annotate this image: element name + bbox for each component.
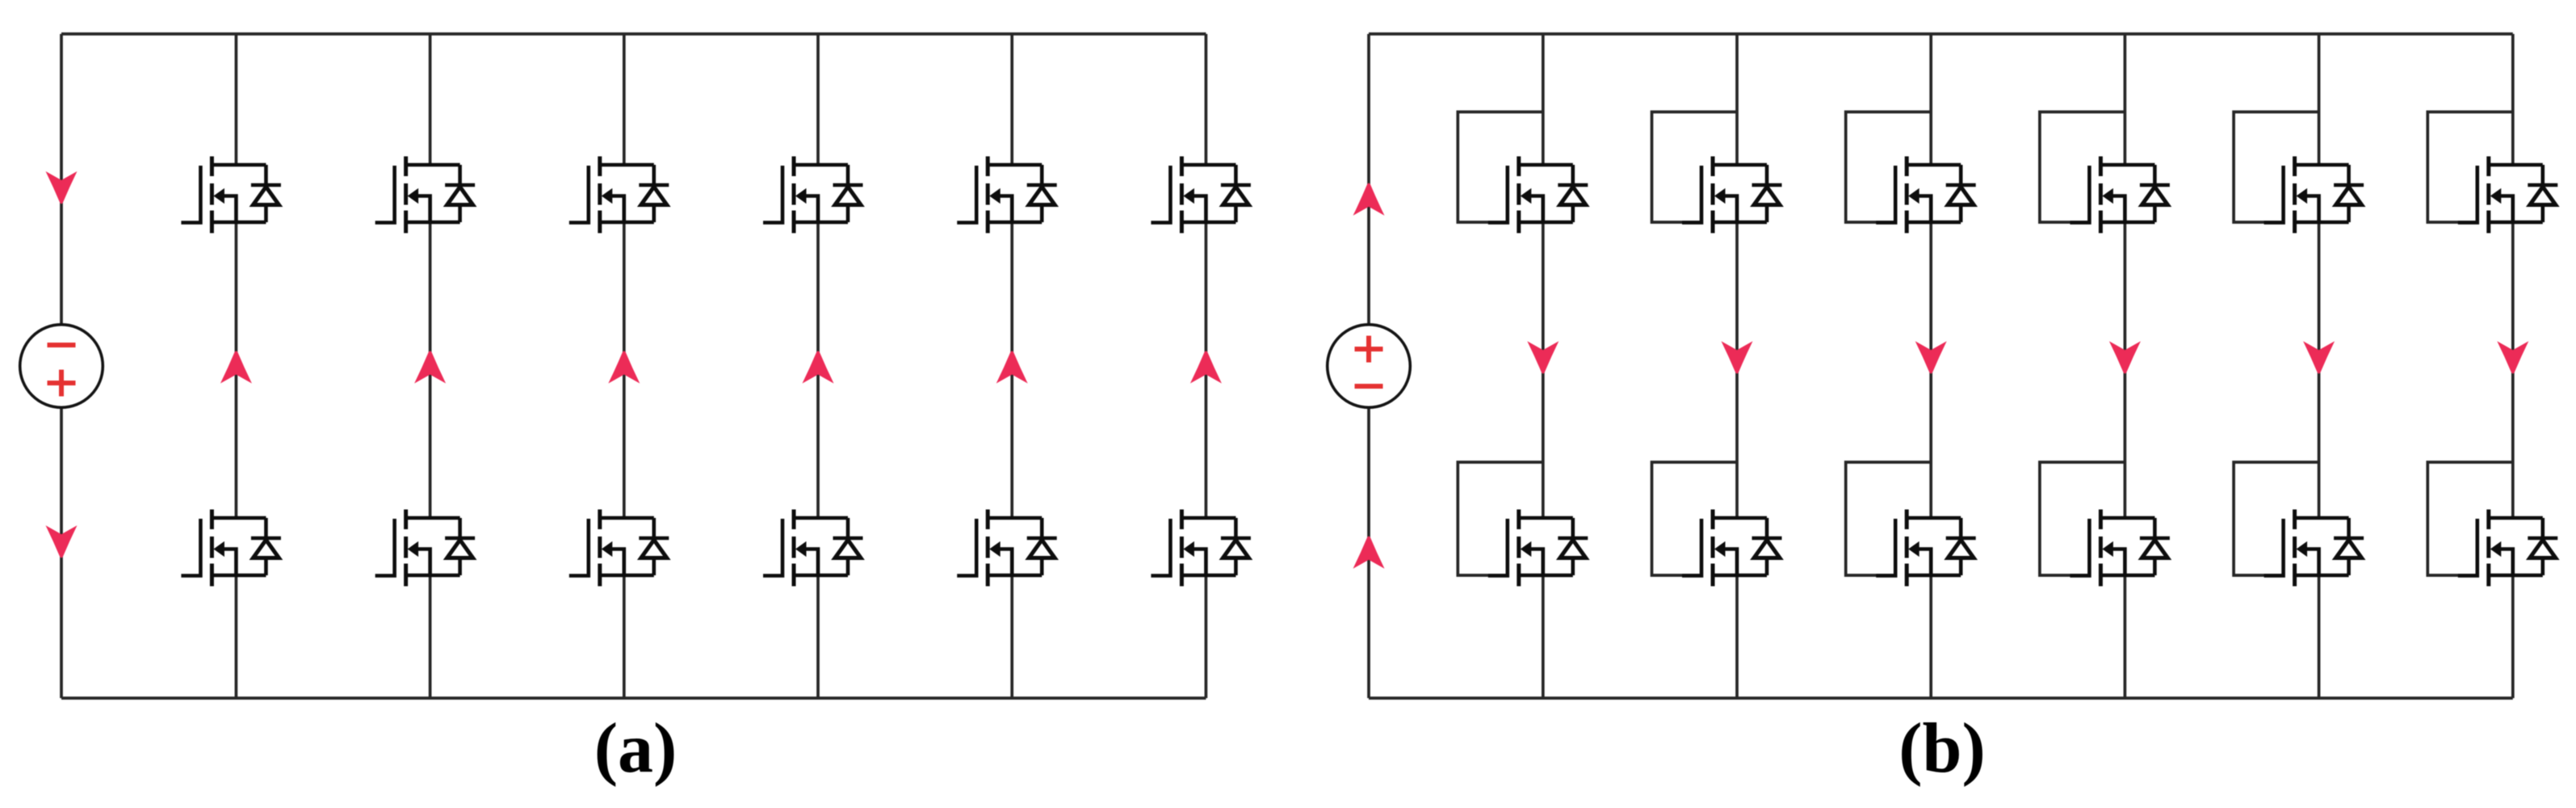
wire top rail (a)	[61, 32, 1206, 36]
wire left lower segment (b)	[1367, 407, 1370, 698]
gate-drain loop wire upper Q17 (b3)	[1846, 112, 1932, 223]
wire branch 5 middle segment (b)	[2318, 222, 2321, 518]
wire branch 4 source segment (a)	[816, 575, 820, 698]
gate-drain loop wire upper Q23 (b6)	[2427, 112, 2513, 223]
wire branch 6 middle segment (b)	[2511, 222, 2515, 518]
current arrow branch 1 (b) down	[1527, 341, 1559, 373]
current arrow branch 6 (b) down	[2497, 341, 2528, 373]
current arrow left upper (b) up	[1353, 183, 1385, 216]
current arrow branch 4 (a) up	[803, 351, 834, 383]
wire branch 2 drain segment (b)	[1735, 34, 1739, 165]
MOSFET Q9 with body diode (a branch 5 top)	[957, 157, 1057, 234]
current arrow branch 3 (a) up	[608, 351, 640, 383]
wire branch 1 middle segment (b)	[1542, 222, 1545, 518]
wire branch 6 source segment (b)	[2511, 575, 2515, 698]
wire branch 6 drain segment (b)	[2511, 34, 2515, 165]
MOSFET Q6 with body diode (a branch 3 bottom)	[569, 510, 669, 587]
wire branch 2 middle segment (a)	[429, 222, 432, 518]
gate-drain loop wire lower Q20 (b4)	[2040, 462, 2125, 575]
current arrow left lower (b) up	[1353, 536, 1385, 568]
MOSFET Q14 with body diode (b branch 1 bottom)	[1488, 510, 1588, 587]
wire branch 2 source segment (a)	[429, 575, 432, 698]
wire branch 1 middle segment (a)	[235, 222, 238, 518]
wire branch 4 source segment (b)	[2124, 575, 2127, 698]
wire branch 1 source segment (b)	[1542, 575, 1545, 698]
gate-drain loop wire upper Q19 (b4)	[2040, 112, 2125, 223]
current arrow branch 2 (a) up	[414, 351, 446, 383]
svg-text:(b): (b)	[1898, 709, 1986, 788]
MOSFET Q21 with body diode (b branch 5 top)	[2264, 157, 2364, 234]
current arrow left upper (a) down	[46, 171, 78, 204]
wire branch 6 middle segment (a)	[1205, 222, 1208, 518]
MOSFET Q19 with body diode (b branch 4 top)	[2070, 157, 2170, 234]
gate-drain loop wire lower Q16 (b2)	[1652, 462, 1738, 575]
current arrow branch 1 (a) up	[220, 351, 252, 383]
gate-drain loop wire upper Q15 (b2)	[1652, 112, 1738, 223]
MOSFET Q11 with body diode (a branch 6 top)	[1151, 157, 1251, 234]
MOSFET Q1 with body diode (a branch 1 top)	[181, 157, 281, 234]
wire left upper segment (b)	[1367, 34, 1370, 325]
wire left upper segment (a)	[60, 34, 63, 325]
wire branch 5 source segment (a)	[1010, 575, 1013, 698]
MOSFET Q4 with body diode (a branch 2 bottom)	[375, 510, 476, 587]
wire branch 5 source segment (b)	[2318, 575, 2321, 698]
MOSFET Q15 with body diode (b branch 2 top)	[1682, 157, 1782, 234]
MOSFET Q16 with body diode (b branch 2 bottom)	[1682, 510, 1782, 587]
MOSFET Q3 with body diode (a branch 2 top)	[375, 157, 476, 234]
MOSFET Q13 with body diode (b branch 1 top)	[1488, 157, 1588, 234]
gate-drain loop wire upper Q13 (b1)	[1458, 112, 1543, 223]
MOSFET Q18 with body diode (b branch 3 bottom)	[1876, 510, 1976, 587]
current arrow branch 4 (b) down	[2109, 341, 2141, 373]
MOSFET Q2 with body diode (a branch 1 bottom)	[181, 510, 281, 587]
wire branch 3 source segment (a)	[623, 575, 626, 698]
wire top rail (b)	[1369, 32, 2513, 36]
svg-text:(a): (a)	[594, 709, 678, 788]
wire branch 3 source segment (b)	[1929, 575, 1932, 698]
wire branch 6 drain segment (a)	[1205, 34, 1208, 165]
gate-drain loop wire lower Q22 (b5)	[2234, 462, 2319, 575]
wire branch 4 middle segment (a)	[816, 222, 820, 518]
MOSFET Q8 with body diode (a branch 4 bottom)	[763, 510, 863, 587]
gate-drain loop wire lower Q24 (b6)	[2427, 462, 2513, 575]
current arrow branch 5 (a) up	[996, 351, 1028, 383]
gate-drain loop wire lower Q18 (b3)	[1846, 462, 1932, 575]
wire branch 3 middle segment (a)	[623, 222, 626, 518]
current arrow branch 3 (b) down	[1915, 341, 1947, 373]
MOSFET Q7 with body diode (a branch 4 top)	[763, 157, 863, 234]
MOSFET Q10 with body diode (a branch 5 bottom)	[957, 510, 1057, 587]
wire branch 4 drain segment (a)	[816, 34, 820, 165]
wire branch 2 middle segment (b)	[1735, 222, 1739, 518]
MOSFET Q23 with body diode (b branch 6 top)	[2458, 157, 2558, 234]
wire branch 4 drain segment (b)	[2124, 34, 2127, 165]
wire branch 1 drain segment (b)	[1542, 34, 1545, 165]
gate-drain loop wire upper Q21 (b5)	[2234, 112, 2319, 223]
wire branch 2 source segment (b)	[1735, 575, 1739, 698]
wire branch 5 drain segment (b)	[2318, 34, 2321, 165]
current arrow branch 5 (b) down	[2303, 341, 2335, 373]
wire branch 3 middle segment (b)	[1929, 222, 1932, 518]
MOSFET Q22 with body diode (b branch 5 bottom)	[2264, 510, 2364, 587]
MOSFET Q24 with body diode (b branch 6 bottom)	[2458, 510, 2558, 587]
wire branch 6 source segment (a)	[1205, 575, 1208, 698]
MOSFET Q17 with body diode (b branch 3 top)	[1876, 157, 1976, 234]
MOSFET Q12 with body diode (a branch 6 bottom)	[1151, 510, 1251, 587]
wire bottom rail (a)	[61, 696, 1206, 700]
wire branch 5 drain segment (a)	[1010, 34, 1013, 165]
gate-drain loop wire lower Q14 (b1)	[1458, 462, 1543, 575]
wire branch 1 source segment (a)	[235, 575, 238, 698]
wire bottom rail (b)	[1369, 696, 2513, 700]
current arrow branch 6 (a) up	[1190, 351, 1222, 383]
wire branch 2 drain segment (a)	[429, 34, 432, 165]
MOSFET Q5 with body diode (a branch 3 top)	[569, 157, 669, 234]
MOSFET Q20 with body diode (b branch 4 bottom)	[2070, 510, 2170, 587]
wire left lower segment (a)	[60, 407, 63, 698]
wire branch 4 middle segment (b)	[2124, 222, 2127, 518]
wire branch 5 middle segment (a)	[1010, 222, 1013, 518]
voltage source V (a)	[20, 325, 103, 408]
voltage source V (b)	[1328, 325, 1411, 408]
wire branch 3 drain segment (b)	[1929, 34, 1932, 165]
current arrow left lower (a) down	[46, 525, 78, 558]
current arrow branch 2 (b) down	[1722, 341, 1753, 373]
wire branch 1 drain segment (a)	[235, 34, 238, 165]
wire branch 3 drain segment (a)	[623, 34, 626, 165]
